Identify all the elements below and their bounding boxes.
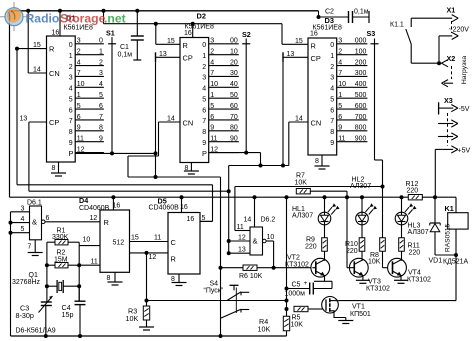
wire S4 row: [147, 300, 287, 302]
resistor R8: [368, 187, 393, 268]
wire D2 R input: [156, 38, 180, 45]
svg-text:9: 9: [202, 140, 206, 147]
wire D3 CN input: [289, 115, 308, 165]
svg-text:8: 8: [330, 129, 334, 136]
svg-text:12: 12: [238, 235, 246, 242]
wire R7 to VT3 base: [310, 191, 349, 268]
ground D1 pin8: [51, 162, 66, 176]
ground VT1 source: [338, 318, 353, 324]
svg-text:5: 5: [77, 103, 81, 110]
svg-text:11: 11: [237, 224, 244, 231]
svg-text:9: 9: [210, 125, 214, 132]
wire D4 p15 to D5 C: [130, 241, 169, 243]
svg-text:+5V: +5V: [458, 148, 471, 155]
node bus junction D1 CN: [26, 9, 30, 73]
capacitor C3 8-30p: [16, 296, 53, 336]
svg-text:8: 8: [107, 275, 111, 282]
svg-text:14: 14: [33, 66, 41, 73]
svg-text:R11: R11: [408, 243, 420, 250]
svg-text:КТ3102: КТ3102: [366, 286, 390, 293]
svg-text:6: 6: [69, 107, 73, 114]
svg-text:13: 13: [287, 51, 295, 58]
svg-text:50: 50: [230, 92, 238, 99]
svg-text:S4: S4: [210, 281, 219, 288]
svg-text:900: 900: [355, 136, 367, 143]
ground D6.1 pin7: [28, 240, 43, 256]
wire D6.2 out to VT2 base: [266, 241, 276, 270]
svg-text:13: 13: [159, 51, 167, 58]
svg-text:12: 12: [77, 146, 85, 153]
svg-text:VD1: VD1: [429, 258, 443, 265]
svg-text:0,1м: 0,1м: [354, 9, 369, 16]
svg-text:0: 0: [330, 42, 334, 49]
svg-text:32768Hz: 32768Hz: [12, 279, 41, 286]
svg-text:6: 6: [338, 114, 342, 121]
svg-text:&: &: [32, 218, 37, 227]
wire D2 CP input: [156, 51, 181, 63]
node R-feed junction D2.R: [154, 22, 158, 45]
svg-text:1: 1: [99, 48, 103, 55]
svg-text:11: 11: [91, 259, 98, 266]
svg-text:11: 11: [154, 235, 161, 242]
node bus junction R-feed riser: [102, 9, 106, 24]
svg-text:R: R: [104, 218, 109, 227]
svg-text:VT2: VT2: [287, 255, 300, 262]
svg-text:00: 00: [230, 38, 238, 45]
svg-text:16: 16: [180, 204, 188, 211]
wire osc left vertical: [46, 242, 48, 302]
svg-text:9: 9: [69, 140, 73, 147]
wire D3 R drop: [282, 24, 308, 45]
svg-text:CP: CP: [49, 118, 59, 127]
counter D2 К561ИЕ8: [180, 12, 239, 163]
svg-text:000: 000: [355, 38, 367, 45]
svg-text:220: 220: [407, 188, 419, 195]
svg-text:2: 2: [202, 64, 206, 71]
wire D3 CP input: [283, 51, 308, 63]
svg-text:10K: 10K: [258, 325, 271, 334]
svg-text:100: 100: [355, 48, 367, 55]
svg-text:4: 4: [69, 86, 73, 93]
svg-text:Storage: Storage: [60, 12, 106, 26]
svg-text:C: C: [171, 238, 177, 247]
svg-text:10K: 10K: [291, 322, 304, 329]
svg-text:15: 15: [33, 42, 41, 49]
divider D4 CD4060B: [79, 195, 139, 272]
switch S2: [242, 30, 251, 152]
gate D6.1 К561ЛА9: [9, 200, 50, 337]
ground D2 pin8: [184, 163, 199, 175]
svg-text:0,1м: 0,1м: [118, 52, 133, 59]
wire D1 R input: [15, 42, 47, 51]
counter D1 К561ИЕ8: [47, 14, 104, 163]
svg-text:10: 10: [230, 48, 238, 55]
wire D1 CN input: [28, 66, 46, 73]
svg-text:512: 512: [113, 240, 125, 247]
connector X1: [411, 6, 469, 66]
gate D6.2 К561ЛА9: [229, 195, 276, 255]
transistor VT3 КТ3102: [347, 258, 390, 292]
svg-text:40: 40: [230, 81, 238, 88]
svg-text:8: 8: [69, 129, 73, 136]
ground VT3 emitter: [356, 280, 370, 283]
svg-text:10K: 10K: [126, 314, 139, 323]
svg-text:10: 10: [338, 81, 346, 88]
svg-text:15: 15: [167, 38, 175, 45]
connector X2: [411, 54, 468, 87]
wire D3 R label: [295, 38, 303, 45]
resistor R12: [406, 181, 423, 200]
svg-text:12: 12: [149, 254, 157, 261]
svg-text:5: 5: [99, 92, 103, 99]
switch S3: [367, 29, 383, 187]
svg-text:5: 5: [21, 226, 25, 233]
svg-text:14: 14: [167, 115, 175, 122]
svg-text:3: 3: [330, 75, 334, 82]
svg-text:3: 3: [210, 38, 214, 45]
wire H1 reset rail: [17, 185, 213, 222]
svg-text:14: 14: [295, 115, 303, 122]
wire D5 R input: [130, 251, 169, 255]
wire S1 common to P-chain: [110, 151, 114, 155]
svg-text:400: 400: [355, 81, 367, 88]
svg-text:7: 7: [338, 70, 342, 77]
wire P-chain horizontal y177: [128, 176, 221, 178]
svg-text:Radio: Radio: [26, 12, 60, 26]
svg-text:3: 3: [69, 75, 73, 82]
svg-text:8: 8: [52, 165, 56, 172]
svg-text:16: 16: [310, 31, 318, 38]
svg-text:6: 6: [330, 107, 334, 114]
svg-text:7: 7: [330, 118, 334, 125]
wire R-feed line: [104, 23, 283, 25]
svg-text:7: 7: [69, 118, 73, 125]
svg-text:7: 7: [99, 114, 103, 121]
svg-text:7: 7: [28, 244, 32, 251]
crystal Q1 32768Hz: [12, 272, 81, 293]
svg-text:4: 4: [99, 81, 103, 88]
wire mid chain y165: [229, 62, 289, 167]
svg-text:4: 4: [338, 59, 342, 66]
svg-text:D6.2: D6.2: [261, 217, 276, 224]
svg-text:1: 1: [202, 53, 206, 60]
svg-text:10: 10: [267, 234, 275, 241]
ground D4 pin8: [107, 272, 123, 285]
svg-text:10: 10: [210, 81, 218, 88]
svg-text:CD4060B: CD4060B: [149, 204, 180, 211]
svg-text:R: R: [183, 41, 188, 50]
svg-text:2: 2: [330, 64, 334, 71]
svg-text:15: 15: [295, 38, 303, 45]
wire D1 CP input: [20, 115, 47, 191]
svg-text:10K: 10K: [295, 180, 308, 187]
LED HL1 АЛ307: [292, 195, 340, 225]
svg-text:R: R: [49, 45, 54, 54]
svg-text:11: 11: [77, 136, 84, 143]
svg-text:8: 8: [315, 158, 319, 165]
ground R3: [139, 324, 154, 330]
svg-text:700: 700: [355, 114, 367, 121]
wire Vm vertical: [227, 166, 231, 256]
resistor R10: [345, 224, 365, 260]
svg-text:30: 30: [230, 70, 238, 77]
wire R12 to K1: [422, 195, 456, 213]
capacitor C1: [118, 9, 144, 60]
wire D2 P chain: [209, 151, 263, 168]
svg-text:-5V: -5V: [459, 106, 470, 113]
svg-text:13: 13: [20, 115, 28, 122]
svg-text:1000м: 1000м: [285, 291, 306, 298]
svg-text:Q1: Q1: [29, 272, 38, 279]
LED HL3 АЛ307: [395, 195, 429, 236]
svg-text:80: 80: [230, 125, 238, 132]
svg-text:RAS0515: RAS0515: [445, 223, 452, 252]
capacitor C4 15p: [62, 286, 86, 336]
svg-text:6: 6: [99, 103, 103, 110]
svg-text:АЛ307: АЛ307: [408, 229, 429, 236]
wire H2 clock rail: [29, 190, 229, 192]
button S4 Пуск: [204, 281, 250, 319]
transistor VT4 КТ3102: [388, 258, 431, 283]
svg-text:20: 20: [230, 59, 238, 66]
resistor R4: [258, 316, 290, 336]
svg-text:16: 16: [187, 216, 195, 223]
svg-text:10: 10: [77, 81, 85, 88]
wire C5 column: [285, 195, 289, 316]
svg-text:4: 4: [210, 59, 214, 66]
svg-text:.net: .net: [104, 12, 126, 26]
svg-text:K1: K1: [445, 204, 454, 213]
svg-text:15: 15: [131, 235, 139, 242]
ground VT4 emitter: [394, 280, 408, 283]
svg-text:0: 0: [69, 42, 73, 49]
svg-text:Нагрузка: Нагрузка: [461, 56, 468, 85]
resistor R5: [291, 306, 324, 328]
wire D1 P to D2 CP: [75, 62, 157, 179]
svg-text:2: 2: [338, 48, 342, 55]
diode VD1 КД521А: [429, 197, 469, 265]
svg-text:C1: C1: [120, 44, 129, 51]
svg-text:C5: C5: [292, 282, 301, 289]
svg-text:8-30p: 8-30p: [16, 311, 34, 320]
svg-text:5: 5: [330, 96, 334, 103]
svg-text:CN: CN: [183, 119, 194, 128]
svg-text:7: 7: [202, 118, 206, 125]
wire Vp S1 net vertical: [219, 177, 223, 338]
connector X3: [438, 96, 470, 155]
svg-text:R5: R5: [292, 315, 301, 322]
svg-text:5: 5: [202, 96, 206, 103]
svg-text:600: 600: [355, 103, 367, 110]
svg-text:6: 6: [46, 215, 50, 222]
svg-text:S1: S1: [106, 29, 115, 38]
svg-text:10: 10: [83, 237, 91, 244]
svg-text:6: 6: [77, 114, 81, 121]
resistor R2: [45, 250, 100, 268]
wire osc right vertical: [78, 246, 80, 302]
svg-text:5: 5: [338, 103, 342, 110]
node R-feed junction D2 pin16: [191, 22, 195, 26]
svg-text:R2: R2: [57, 250, 66, 257]
counter D3 К561ИЕ8: [308, 16, 367, 155]
svg-text:CP: CP: [311, 54, 321, 63]
resistor R7: [227, 173, 311, 194]
svg-text:11: 11: [338, 136, 345, 143]
ground D5 pin8: [171, 274, 187, 286]
svg-text:X1: X1: [447, 6, 456, 15]
resistor R6: [221, 265, 313, 280]
svg-text:R7: R7: [296, 173, 305, 180]
svg-text:5: 5: [210, 103, 214, 110]
svg-text:70: 70: [230, 114, 238, 121]
svg-text:К561ИЕ8: К561ИЕ8: [64, 25, 93, 32]
svg-text:16: 16: [184, 30, 192, 37]
svg-text:VT1: VT1: [352, 304, 365, 311]
svg-text:7: 7: [77, 70, 81, 77]
svg-text:800: 800: [355, 125, 367, 132]
svg-text:0: 0: [99, 38, 103, 45]
svg-text:10K: 10K: [368, 259, 381, 266]
svg-text:4: 4: [202, 86, 206, 93]
svg-text:12: 12: [90, 215, 98, 222]
svg-text:КП501: КП501: [350, 311, 371, 318]
svg-text:90: 90: [230, 136, 238, 143]
svg-text:2: 2: [69, 64, 73, 71]
wire D6.1 out to D4 R: [45, 221, 100, 223]
wire V_c D1R to H1: [16, 49, 18, 185]
svg-text:VT4: VT4: [408, 270, 421, 277]
svg-text:АЛ307: АЛ307: [350, 183, 371, 190]
logo RadioStorage.net: [0, 2, 126, 31]
svg-text:200: 200: [355, 59, 367, 66]
wire H3 VDD rail: [10, 196, 409, 198]
divider D5 CD4060B: [149, 195, 206, 274]
resistor R1: [47, 228, 100, 246]
svg-text:R9: R9: [306, 237, 315, 244]
transistor VT2 КТ3102: [285, 255, 330, 282]
svg-text:6: 6: [202, 107, 206, 114]
svg-text:X3: X3: [444, 96, 453, 105]
svg-text:X2: X2: [447, 54, 456, 63]
svg-text:D2: D2: [197, 12, 206, 21]
svg-text:R6 10K: R6 10K: [239, 273, 263, 280]
label D6 type: [16, 328, 56, 335]
svg-text:P: P: [69, 149, 74, 158]
svg-text:P: P: [202, 149, 207, 158]
svg-text:220: 220: [346, 248, 358, 255]
svg-text:15p: 15p: [62, 310, 74, 319]
svg-text:“Пуск”: “Пуск”: [204, 288, 224, 295]
svg-text:5: 5: [69, 96, 73, 103]
svg-text:CN: CN: [49, 69, 60, 78]
svg-text:9: 9: [338, 125, 342, 132]
node bus junction D1 pin16: [52, 9, 63, 37]
svg-text:0: 0: [202, 42, 206, 49]
svg-text:R: R: [171, 255, 176, 264]
wire D2 CN input: [128, 115, 180, 177]
svg-text:2: 2: [99, 59, 103, 66]
svg-text:D6-К561ЛА9: D6-К561ЛА9: [16, 328, 56, 335]
svg-text:АЛ307: АЛ307: [292, 213, 313, 220]
svg-text:C2: C2: [325, 9, 334, 16]
svg-text:S3: S3: [367, 29, 376, 38]
svg-text:2: 2: [210, 48, 214, 55]
svg-text:1: 1: [330, 53, 334, 60]
svg-text:+: +: [304, 280, 308, 287]
svg-text:VT3: VT3: [368, 279, 381, 286]
svg-text:14: 14: [244, 217, 252, 224]
svg-text:КТ3102: КТ3102: [407, 277, 431, 284]
wire +5V feed: [435, 149, 443, 197]
LED HL2 АЛ307: [350, 177, 377, 225]
svg-text:CN: CN: [311, 119, 322, 128]
resistor R3: [126, 253, 150, 324]
svg-text:300: 300: [355, 70, 367, 77]
svg-text:3: 3: [338, 38, 342, 45]
svg-text:4: 4: [330, 86, 334, 93]
capacitor C5 1000м: [285, 280, 333, 298]
svg-text:8: 8: [99, 125, 103, 132]
resistor R11: [399, 224, 421, 260]
wire bottom rail: [11, 334, 287, 338]
svg-text:R10: R10: [345, 241, 358, 248]
svg-text:D4: D4: [79, 196, 88, 205]
svg-text:3: 3: [77, 38, 81, 45]
wire D5 pin5 out: [200, 220, 213, 222]
svg-text:8: 8: [202, 129, 206, 136]
svg-text:9: 9: [77, 125, 81, 132]
svg-text:60: 60: [230, 103, 238, 110]
svg-text:К1.1: К1.1: [390, 22, 404, 29]
svg-text:13: 13: [238, 247, 246, 254]
svg-text:2: 2: [77, 48, 81, 55]
svg-text:11: 11: [210, 136, 217, 143]
capacitor C2: [317, 9, 370, 24]
svg-text:9: 9: [99, 136, 103, 143]
svg-text:КТ3102: КТ3102: [285, 262, 309, 269]
resistor R9: [305, 224, 327, 260]
svg-text:1: 1: [338, 92, 342, 99]
svg-text:1: 1: [69, 53, 73, 60]
svg-text:&: &: [253, 237, 258, 246]
svg-text:9: 9: [330, 140, 334, 147]
ground D3 pin8: [315, 155, 330, 169]
svg-text:S2: S2: [242, 30, 251, 39]
svg-text:220: 220: [409, 250, 421, 257]
svg-text:500: 500: [355, 92, 367, 99]
svg-text:1: 1: [77, 92, 81, 99]
svg-text:7: 7: [210, 70, 214, 77]
svg-text:1: 1: [210, 92, 214, 99]
relay K1 RAS0515: [445, 204, 469, 257]
relay contact K1.1: [390, 18, 411, 63]
wire La S3 net: [235, 185, 385, 231]
switch S1: [106, 29, 116, 155]
svg-text:220: 220: [305, 244, 317, 251]
transistor VT1 КП501: [322, 297, 371, 319]
svg-text:6: 6: [210, 114, 214, 121]
svg-text:~220V: ~220V: [449, 27, 470, 34]
svg-text:3: 3: [99, 70, 103, 77]
svg-text:CP: CP: [183, 54, 193, 63]
wire K1 to VT1 drain: [338, 255, 456, 301]
svg-text:R: R: [311, 42, 316, 51]
wire top VDD bus: [10, 11, 319, 197]
svg-text:4: 4: [21, 216, 25, 223]
svg-text:3: 3: [202, 75, 206, 82]
svg-text:4: 4: [77, 59, 81, 66]
svg-text:3: 3: [21, 205, 25, 212]
